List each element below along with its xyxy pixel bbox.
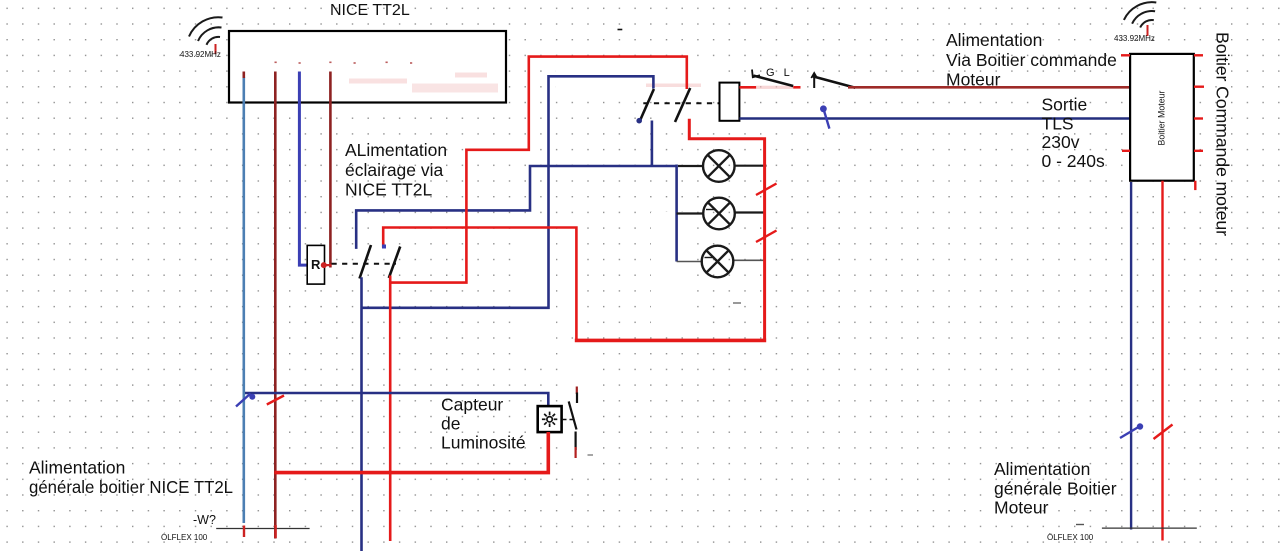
erased pink smudges inside NICE box	[349, 73, 701, 93]
wire red stub box right 3	[1194, 117, 1203, 119]
svg-text:433.92MHz: 433.92MHz	[1114, 34, 1155, 43]
wire red lamp loop right bus	[689, 119, 764, 339]
svg-text:ÓLFLEX 100: ÓLFLEX 100	[161, 533, 208, 542]
node blue dot slash1 bottom	[636, 118, 642, 124]
svg-text:Boitier Moteur: Boitier Moteur	[1157, 90, 1167, 145]
wire red stub box left top	[1121, 54, 1130, 56]
relay box K1	[720, 83, 740, 121]
svg-text:G L: G L	[766, 67, 793, 79]
tiny dash above olflex right	[1076, 524, 1084, 526]
wire blue contactA bottom long vertical	[360, 277, 363, 551]
wire W1 teal from NICE pin1 down	[243, 77, 246, 523]
node blue dot on TLS switch	[820, 105, 827, 112]
svg-text:TLS: TLS	[1042, 114, 1074, 134]
svg-text:générale Boitier: générale Boitier	[994, 479, 1117, 499]
contact B slash	[389, 247, 400, 279]
wire blue bottom horizontal to sensor	[245, 393, 548, 407]
lamp switch slash 1	[640, 89, 654, 121]
svg-text:Alimentation: Alimentation	[29, 458, 125, 478]
pink smear erased wire	[756, 86, 793, 89]
sensor switch red top tick	[576, 387, 578, 395]
svg-text:NICE TT2L: NICE TT2L	[345, 180, 432, 200]
wire black lamp2 right stub	[735, 211, 765, 213]
wire blue under motor box	[1130, 182, 1132, 530]
antenna right red tick	[1147, 25, 1149, 36]
sensor switch blade	[569, 401, 577, 429]
wire blue cross link to lamp switch	[362, 76, 654, 307]
switch GL blade	[754, 76, 794, 86]
dashed link from R to contacts	[332, 263, 397, 265]
erased white patches	[518, 59, 772, 478]
sensor box capteur	[538, 406, 562, 432]
wire red tick box bottom right	[1194, 181, 1196, 190]
wire blue slash1 bottom to lamp bus	[651, 121, 654, 167]
switch blue slash bottom right	[1120, 426, 1141, 439]
wire black lamp3 left stub	[677, 261, 703, 263]
lamp switch slash 2	[675, 88, 690, 122]
red slash mark 2 on bus	[756, 231, 777, 243]
switch red slash bottom left	[267, 396, 284, 405]
wire red thick bottom of lamp loop	[575, 339, 766, 343]
wire red segment after GL	[793, 86, 800, 89]
svg-text:NICE TT2L: NICE TT2L	[330, 2, 410, 19]
wire blue TLS line	[740, 117, 1131, 120]
svg-text:éclairage via: éclairage via	[345, 160, 444, 180]
wire black lamp1 left stub	[678, 165, 704, 167]
cable mark left OLFLEX line	[216, 528, 309, 530]
switch red slash bottom right	[1154, 425, 1173, 440]
tiny dash under lamp3	[733, 302, 741, 304]
antenna left red tick	[215, 44, 217, 54]
switch blue on TLS line	[823, 109, 829, 129]
wire red contactB bottom long vertical	[389, 276, 392, 542]
switch S2 blade	[812, 76, 855, 88]
svg-text:0 - 240s: 0 - 240s	[1042, 151, 1105, 171]
box U1 NICE TT2L	[229, 31, 506, 103]
contact A slash	[360, 245, 372, 279]
svg-text:générale boitier NICE TT2L: générale boitier NICE TT2L	[29, 477, 233, 497]
svg-text:Luminosité: Luminosité	[441, 433, 526, 453]
red specks row inside NICE box	[275, 62, 413, 64]
wire red stub R right	[323, 264, 332, 266]
svg-text:Boitier Commande moteur: Boitier Commande moteur	[1213, 32, 1233, 236]
svg-text:Sortie: Sortie	[1042, 95, 1088, 115]
wire red contactB loop to lamp switch	[390, 57, 687, 283]
svg-text:Moteur: Moteur	[946, 70, 1001, 90]
lamp L2	[703, 198, 735, 230]
wire black lamp3 right stub	[734, 259, 764, 261]
red slash mark 1 on bus	[756, 184, 777, 196]
sensor switch bottom lead	[574, 432, 576, 451]
antenna right	[1124, 2, 1156, 27]
red tick crossing olflex on W1	[243, 526, 245, 538]
switch blue slash bottom left	[236, 394, 251, 407]
svg-text:433.92MHz: 433.92MHz	[180, 50, 221, 59]
svg-text:230v: 230v	[1042, 132, 1080, 152]
wire red K1 right stub	[740, 86, 757, 89]
lamp L1	[703, 150, 735, 182]
wire W4 dark red from NICE pin4 down to R area	[329, 72, 332, 268]
svg-text:Alimentation: Alimentation	[946, 30, 1042, 50]
wire red stub box right 4	[1194, 150, 1203, 152]
svg-text:-W?: -W?	[193, 513, 216, 527]
relay coil R	[307, 245, 324, 284]
svg-text:Alimentation: Alimentation	[994, 459, 1090, 479]
dashed link sensor to switch	[562, 419, 574, 421]
node blue speck at contactB top	[382, 245, 386, 249]
svg-text:ALimentation: ALimentation	[345, 140, 447, 160]
node blue dot bottom left	[249, 394, 255, 400]
sensor switch top lead	[576, 393, 578, 404]
node red dot at R right	[321, 262, 327, 268]
wire red stub box left bottom	[1122, 150, 1130, 152]
switch GL arrow tip	[752, 70, 760, 78]
svg-text:ÖLFLEX 100: ÖLFLEX 100	[1047, 533, 1094, 542]
wire blue contactA top	[356, 166, 676, 249]
sensor switch red bottom tick	[574, 447, 576, 458]
wire black lamp2 left stub	[677, 212, 704, 214]
svg-text:Capteur: Capteur	[441, 395, 503, 415]
box Boitier Moteur	[1130, 54, 1194, 181]
wire W3 blue from NICE pin3 to relay R coil	[299, 72, 307, 266]
svg-text:R: R	[311, 257, 321, 272]
wire red thick sensor return	[274, 432, 548, 473]
svg-text:Moteur: Moteur	[994, 498, 1049, 518]
svg-text:de: de	[441, 414, 460, 434]
lamp L3	[702, 246, 734, 278]
cable mark right OLFLEX line	[1102, 527, 1197, 529]
wire red stub box right 1	[1194, 54, 1203, 56]
node blue dot bottom right	[1137, 423, 1143, 429]
sensor sun icon	[542, 412, 557, 427]
wire red under motor box	[1161, 181, 1163, 541]
wire red stub box right 2	[1194, 85, 1204, 87]
antenna left	[189, 17, 223, 45]
wire W1 red tip	[243, 72, 246, 79]
wire red contactB top	[383, 228, 576, 341]
switch S2 vertical arrow	[811, 73, 817, 78]
svg-text:Via Boitier commande: Via Boitier commande	[946, 50, 1117, 70]
wire blue lamp bus vertical	[675, 165, 678, 262]
red tick crossing olflex on W2	[274, 525, 276, 538]
wire W2 dark red from NICE pin2 down	[274, 72, 277, 539]
wire black lamp1 right stub	[735, 165, 767, 167]
dashed mechanical link lamp switch	[643, 102, 719, 104]
tiny gray dash near sensor switch	[588, 454, 594, 456]
wire maroon motor supply line	[848, 86, 1130, 89]
tiny black dash top middle	[618, 29, 623, 31]
